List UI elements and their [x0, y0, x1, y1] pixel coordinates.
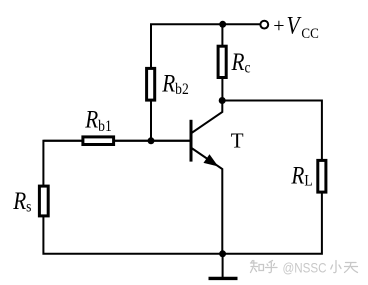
transistor T emitter arrow: [204, 155, 217, 166]
watermark zhihu: [251, 261, 358, 273]
transistor T emitter branch down to bottom rail: [192, 148, 223, 255]
svg-text:CC: CC: [301, 25, 318, 41]
transistor T collector branch: [192, 100, 223, 134]
wire Rc bottom to collector node: [221, 78, 223, 102]
svg-text:@NSSC: @NSSC: [283, 260, 327, 276]
svg-text:+: +: [273, 15, 284, 37]
resistor Rb1 body: [83, 137, 114, 145]
wire collector node right and down to RL top: [222, 101, 322, 161]
svg-text:Rc: Rc: [231, 48, 251, 76]
label Rb1: [84, 106, 111, 135]
svg-text:Rb1: Rb1: [84, 106, 111, 135]
resistor Rb2 body: [147, 68, 155, 100]
wire Rs bottom down, bottom rail, up right side to RL bottom: [43, 193, 322, 254]
watermark char hu: [266, 261, 278, 273]
label Rs: [12, 187, 31, 215]
junction dot base node: [148, 137, 155, 144]
resistor Rc body: [218, 46, 226, 77]
resistor RL body: [318, 160, 326, 192]
junction dot emitter at bottom rail: [219, 250, 226, 257]
ground stem: [222, 254, 224, 277]
svg-text:V: V: [287, 12, 303, 40]
wire Rb2 bottom to base node: [150, 100, 152, 142]
svg-text:RL: RL: [290, 162, 312, 190]
svg-text:Rb2: Rb2: [161, 70, 188, 98]
wire left vertical base line corner down to Rs top: [43, 141, 189, 186]
VCC terminal open circle: [260, 21, 268, 29]
svg-text:T: T: [231, 129, 244, 153]
watermark char tian: [345, 263, 358, 273]
watermark char xiao: [331, 261, 341, 273]
wire base line from left corner through Rb1 to transistor base: [43, 140, 189, 142]
resistor Rs body: [39, 186, 48, 216]
watermark char zhi: [251, 261, 264, 273]
wire top rail from Rb2 branch to VCC terminal with corner down to Rb2: [151, 24, 261, 68]
transistor T base bar: [190, 120, 193, 162]
label +VCC: [273, 12, 318, 41]
junction dot top rail at Rc: [219, 21, 226, 28]
label Rb2: [161, 70, 188, 98]
svg-text:Rs: Rs: [12, 187, 31, 215]
ground bar: [209, 277, 238, 280]
label Rc: [231, 48, 251, 76]
junction dot collector node: [219, 97, 226, 104]
label RL: [290, 162, 312, 190]
wire Rc top to top rail: [221, 23, 223, 46]
